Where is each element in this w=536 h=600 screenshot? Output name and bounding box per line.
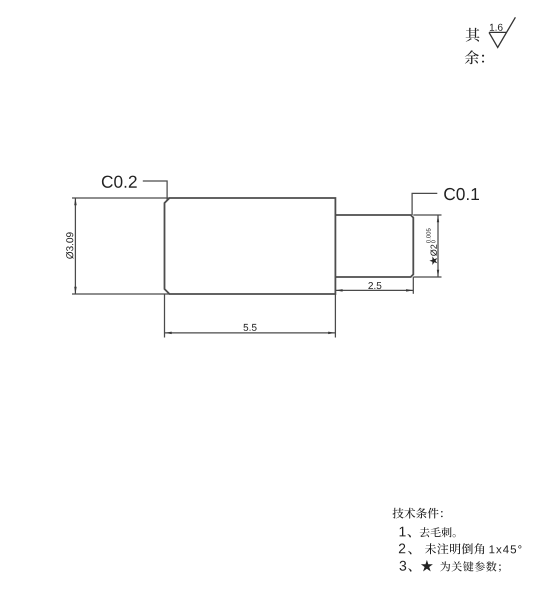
big cylinder body outline with C0.2 chamfers on left end — [165, 198, 336, 294]
arrow down dia 2 — [437, 270, 439, 277]
label star dia 2 with tolerance 0.005/0 (rotated) — [426, 228, 437, 265]
text qi (other surfaces) — [466, 28, 480, 42]
note line 1: technical conditions heading — [393, 508, 443, 519]
leader line C0.1 — [412, 193, 437, 215]
arrow left 2.5 — [335, 289, 342, 292]
label 5.5 — [244, 324, 257, 331]
dimension line dia 2 — [437, 215, 439, 277]
arrow right 5.5 — [328, 332, 335, 335]
note line 4: 3. star marks key parameter — [400, 560, 501, 572]
small cylinder body outline with C0.1 chamfers on right end — [335, 215, 413, 277]
dimension line 5.5 — [165, 332, 336, 334]
extension line top for dia 3.09 — [72, 197, 170, 199]
extension line top for dia 2 — [413, 214, 441, 216]
extension line left for 5.5 — [164, 294, 166, 338]
text yu — [465, 50, 479, 64]
arrow up dia 2 — [437, 215, 439, 222]
leader line C0.2 — [143, 181, 167, 201]
extension line bottom for dia 3.09 — [72, 293, 170, 295]
note line 3: 2. unnoted chamfer 1x45 — [399, 543, 522, 554]
dimension line dia 3.09 — [74, 198, 76, 294]
dimension line 2.5 — [335, 289, 413, 291]
extension line right for 5.5 — [334, 294, 336, 338]
arrow left 5.5 — [165, 332, 172, 335]
label dia 3.09 (rotated) — [66, 232, 74, 259]
extension line right for 2.5 — [412, 277, 414, 294]
note line 2: 1. deburr — [400, 527, 456, 538]
arrow down dia 3.09 — [74, 287, 77, 294]
arrow up dia 3.09 — [74, 198, 77, 205]
label C0.2 — [102, 176, 137, 188]
label 1.6 roughness — [490, 24, 503, 31]
surface roughness symbol — [489, 17, 515, 47]
arrow right 2.5 — [406, 289, 413, 292]
text colon after yu — [482, 55, 484, 63]
label C0.1 — [444, 188, 479, 200]
label 2.5 — [368, 282, 381, 289]
extension line bottom for dia 2 — [413, 276, 441, 278]
